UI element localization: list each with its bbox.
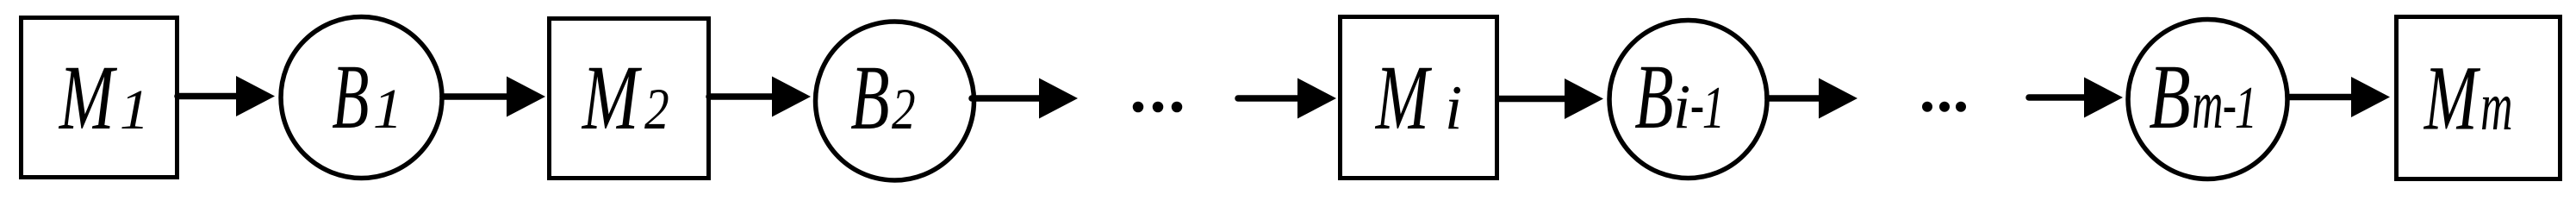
buffer B2 circle	[816, 22, 974, 180]
svg-text:i: i	[1445, 72, 1462, 142]
arrow M1 to B1	[177, 76, 275, 116]
svg-text:M: M	[581, 47, 642, 149]
machine M2 box	[550, 19, 709, 179]
svg-text:m: m	[2480, 68, 2512, 145]
arrow B1 to M2	[443, 77, 545, 117]
buffer B1 circle	[281, 17, 442, 179]
svg-text:i: i	[1673, 72, 1690, 141]
svg-text:B: B	[850, 47, 889, 149]
svg-text:2: 2	[644, 76, 669, 141]
svg-text:1: 1	[373, 77, 402, 141]
svg-text:M: M	[1374, 47, 1432, 148]
svg-text:1: 1	[1702, 75, 1725, 141]
svg-text:1: 1	[120, 78, 149, 141]
arrow Mi to Bi-1	[1499, 78, 1603, 119]
svg-text:m: m	[2192, 68, 2223, 143]
svg-text:M: M	[58, 47, 117, 149]
first ellipsis dots	[1133, 102, 1183, 113]
machine M1 box	[22, 18, 177, 178]
arrow second ellipsis to Bm-1	[2029, 78, 2123, 118]
machine Mm box	[2397, 17, 2560, 179]
machine Mi box	[1341, 17, 1497, 179]
buffer Bi-1 circle	[1609, 21, 1767, 179]
svg-text:B: B	[332, 45, 369, 147]
svg-text:B: B	[1634, 46, 1673, 148]
svg-text:1: 1	[2235, 75, 2257, 141]
arrow first ellipsis to Mi	[1238, 78, 1336, 119]
svg-text:2: 2	[892, 78, 916, 142]
arrow M2 to B2	[709, 77, 811, 117]
arrow Bm-1 to Mm	[2290, 77, 2390, 117]
buffer Bm-1 circle	[2128, 20, 2287, 179]
svg-text:M: M	[2423, 47, 2480, 148]
arrow Bi-1 to second ellipsis	[1768, 78, 1857, 119]
second ellipsis dots	[1922, 102, 1966, 112]
svg-text:B: B	[2149, 47, 2190, 148]
arrow B2 to first ellipsis	[972, 78, 1078, 119]
